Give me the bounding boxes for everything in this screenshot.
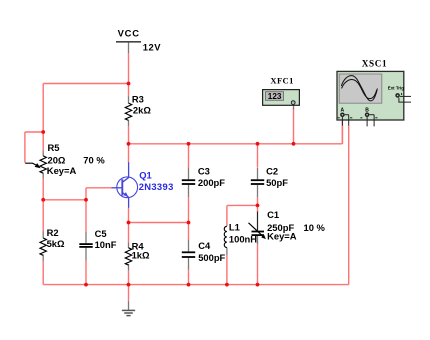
- svg-text:500pF: 500pF: [198, 252, 225, 263]
- svg-text:XSC1: XSC1: [362, 59, 387, 69]
- svg-text:Key=A: Key=A: [267, 231, 297, 242]
- svg-text:1kΩ: 1kΩ: [132, 250, 150, 261]
- svg-text:70 %: 70 %: [83, 155, 105, 166]
- svg-text:C3: C3: [198, 165, 210, 176]
- svg-text:R5: R5: [48, 142, 60, 153]
- svg-text:5kΩ: 5kΩ: [47, 238, 65, 249]
- svg-text:R2: R2: [47, 227, 59, 238]
- svg-text:200pF: 200pF: [198, 177, 225, 188]
- svg-text:B: B: [365, 108, 369, 114]
- svg-text:Ext Trig: Ext Trig: [388, 85, 404, 90]
- svg-text:123: 123: [268, 92, 282, 101]
- svg-text:10 %: 10 %: [304, 222, 326, 233]
- svg-text:L1: L1: [229, 221, 240, 232]
- svg-text:20Ω: 20Ω: [48, 154, 66, 165]
- svg-text:50pF: 50pF: [266, 177, 288, 188]
- svg-text:2kΩ: 2kΩ: [133, 104, 151, 115]
- svg-text:C4: C4: [198, 240, 211, 251]
- svg-text:2N3393: 2N3393: [139, 181, 174, 192]
- svg-text:VCC: VCC: [118, 27, 140, 38]
- svg-text:C2: C2: [266, 165, 278, 176]
- svg-text:Q1: Q1: [139, 169, 152, 180]
- svg-text:C5: C5: [95, 228, 107, 239]
- svg-text:10nF: 10nF: [95, 239, 117, 250]
- svg-text:XFC1: XFC1: [270, 76, 293, 86]
- svg-text:100nH: 100nH: [229, 234, 257, 245]
- svg-text:A: A: [341, 108, 345, 114]
- svg-text:12V: 12V: [143, 41, 161, 52]
- svg-text:C1: C1: [267, 209, 279, 220]
- svg-text:Key=A: Key=A: [47, 165, 77, 176]
- svg-text:R3: R3: [132, 93, 144, 104]
